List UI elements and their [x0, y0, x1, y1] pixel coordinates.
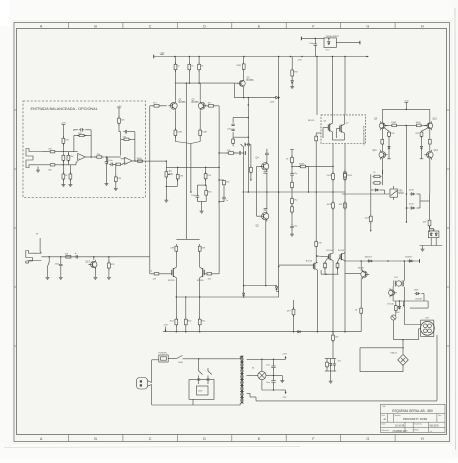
wire [175, 297, 177, 319]
wire [93, 257, 95, 260]
wire [433, 229, 435, 232]
wire filter bottom to bus [192, 399, 194, 405]
stub contact [403, 301, 405, 305]
wire center mirror drop [405, 125, 407, 143]
wire mains to transformer [186, 358, 239, 360]
wire x333 mid segment [332, 261, 334, 275]
resistor R35 [291, 180, 293, 182]
diode D12 [421, 145, 423, 146]
wire [392, 296, 394, 301]
svg-text:-70V: -70V [282, 397, 287, 399]
wire bus y297 [176, 296, 242, 298]
junction [315, 38, 317, 40]
ground Q13 [94, 276, 96, 278]
trim pot VR1 [390, 189, 397, 197]
svg-text:OUT: OUT [425, 317, 430, 319]
svg-text:H: H [421, 24, 424, 28]
wire [198, 57, 200, 65]
wire [205, 167, 207, 173]
svg-text:47K: 47K [111, 264, 115, 266]
svg-text:-70V: -70V [163, 325, 168, 327]
wire [382, 170, 384, 185]
svg-text:BD135: BD135 [308, 120, 315, 122]
wire [132, 160, 143, 162]
wire horizontal y194 [342, 193, 390, 195]
power +V mirror [405, 102, 409, 104]
resistor R48 [421, 131, 423, 132]
junction [291, 166, 293, 168]
transformer core [240, 356, 242, 404]
wire [314, 47, 316, 57]
wire [385, 124, 390, 126]
wire [420, 200, 430, 202]
svg-text:90 C: 90 C [326, 50, 331, 52]
wire [152, 160, 166, 162]
wire [121, 163, 123, 165]
capacitor C17 [273, 378, 275, 380]
junction [205, 167, 207, 169]
svg-text:220R: 220R [347, 175, 352, 177]
junction [176, 296, 178, 298]
svg-text:BC556: BC556 [192, 102, 200, 104]
svg-text:KBL04: KBL04 [391, 353, 398, 355]
title block [381, 404, 446, 432]
wire [106, 157, 108, 160]
wire [243, 88, 245, 98]
wire input chain [41, 256, 149, 258]
svg-text:Sheet: Sheet [414, 428, 419, 431]
x429 resistor chain [429, 194, 431, 218]
wire [67, 160, 69, 165]
wire [243, 57, 245, 64]
transformer secondary winding [241, 356, 244, 362]
wire input column end [149, 257, 151, 274]
resistor R54 [108, 261, 110, 263]
resistor R36 [291, 196, 293, 198]
junction x345 bus [344, 331, 346, 333]
svg-text:-: - [125, 158, 126, 161]
wire [332, 179, 334, 192]
junction x316 y192 [315, 191, 317, 193]
resistor R4 [62, 153, 64, 155]
junction x406 y194 [406, 193, 408, 195]
wire [212, 273, 220, 275]
svg-text:Filename: Filename [382, 430, 389, 432]
wire [381, 129, 383, 139]
wire [175, 251, 177, 267]
wire wiper corner [166, 185, 177, 187]
wire [199, 325, 201, 332]
wire [344, 115, 346, 124]
wire secondary taps [247, 358, 262, 360]
resistor R20 [175, 62, 177, 64]
resistor R39b [332, 201, 334, 203]
junction [243, 296, 245, 298]
wire [199, 297, 201, 319]
wire Q5 down [265, 220, 267, 286]
svg-text:LIGA: LIGA [178, 361, 183, 364]
svg-text:PROXIMITY 16/99: PROXIMITY 16/99 [403, 417, 427, 421]
svg-text:10m: 10m [266, 382, 270, 384]
svg-text:Date: Date [382, 423, 386, 426]
wire [134, 132, 136, 161]
svg-text:SPW56: SPW56 [197, 280, 205, 282]
transistor Q3 [239, 80, 245, 86]
wire [165, 161, 167, 171]
resistor R33 [226, 152, 228, 154]
capacitor C2 [106, 160, 108, 162]
wire [108, 257, 110, 263]
wire [150, 273, 154, 275]
wire [278, 97, 281, 99]
junction [93, 256, 95, 258]
resistor R52 [429, 218, 431, 220]
wire [62, 125, 64, 139]
junction [308, 191, 310, 193]
wire [120, 132, 122, 156]
switch CH1 [177, 356, 183, 359]
resistor R53 [64, 256, 66, 258]
resistor R70 small column [250, 145, 252, 168]
wire x407 upper [405, 143, 407, 222]
connector chain end [244, 151, 246, 155]
svg-text:H: H [421, 437, 424, 441]
resistor R45 [381, 138, 383, 139]
wire [336, 129, 338, 139]
diode D5b [435, 231, 437, 234]
wire tail join [175, 142, 191, 144]
relay RL1 coil [396, 281, 401, 286]
resistor R51a [373, 175, 375, 177]
wire [108, 268, 110, 276]
junction bus [174, 56, 176, 58]
resistor R27 [243, 62, 245, 64]
junction x333 y192 [332, 191, 334, 193]
junction [248, 97, 250, 99]
bottom grid reference strip [67, 435, 69, 442]
junction [218, 167, 220, 169]
resistor R32 [223, 179, 225, 181]
svg-text:TERMOSTATO: TERMOSTATO [326, 35, 340, 38]
junction [199, 331, 201, 333]
svg-text:Number: Number [395, 414, 401, 417]
svg-text:100R: 100R [391, 122, 396, 124]
junction [218, 179, 220, 181]
resistor R2 [49, 164, 50, 166]
diode D9 [408, 260, 410, 262]
wire [276, 290, 278, 293]
wire [291, 76, 293, 80]
wire y371 bus [360, 371, 403, 373]
wire Q18 down column [360, 278, 362, 308]
resistor R21 [188, 62, 190, 64]
svg-text:22R: 22R [391, 133, 395, 135]
bias servo box [321, 115, 366, 144]
wire source columns down [175, 278, 177, 297]
resistor R39 [332, 172, 334, 174]
wire [291, 212, 293, 225]
line filter box [189, 380, 214, 400]
junction [325, 273, 327, 275]
wire [332, 192, 334, 203]
wire Q20 down [393, 320, 395, 340]
wire [337, 267, 339, 274]
svg-text:BC556: BC556 [179, 102, 187, 104]
svg-text:330R: 330R [299, 163, 304, 165]
resistor R5 [67, 153, 69, 155]
svg-text:220R: 220R [236, 65, 241, 67]
wire [292, 166, 300, 168]
svg-text:Title: Title [382, 405, 385, 408]
wire [293, 300, 295, 309]
junction [185, 296, 187, 298]
wire [174, 83, 176, 101]
svg-text:220V: 220V [198, 390, 203, 392]
resistor R59a [175, 317, 177, 319]
wire [398, 124, 406, 126]
wire relay output to speaker [403, 287, 405, 325]
svg-text:1N4007: 1N4007 [365, 257, 373, 259]
wire [234, 152, 238, 154]
svg-text:10K: 10K [169, 174, 174, 176]
wire [201, 202, 203, 210]
resistor R14 [115, 175, 117, 177]
mains plug P1 [137, 378, 148, 390]
svg-text:BC556: BC556 [327, 250, 334, 252]
wire [199, 251, 201, 267]
aux supply network [325, 358, 336, 360]
wire [332, 208, 334, 240]
wire [196, 185, 198, 194]
resistor R65 [332, 333, 334, 335]
wire [266, 155, 268, 162]
resistor R57 [199, 244, 201, 246]
wire [74, 151, 78, 153]
resistor R72 [360, 306, 362, 308]
wire [419, 194, 421, 208]
wire top supply bus [154, 56, 368, 58]
transistor Q1 [170, 102, 177, 109]
svg-text:ACOPLAR TERMICO: ACOPLAR TERMICO [362, 126, 365, 146]
wire y297 right portion [242, 296, 279, 298]
junction bus [332, 56, 334, 58]
transformer primary winding [240, 356, 243, 362]
wire [423, 124, 427, 126]
wire speaker return [419, 328, 421, 330]
sense column down [370, 190, 372, 216]
wire long feedback line [185, 83, 187, 239]
wire [105, 156, 107, 158]
svg-text:ESQUEMA GERAL AB - 580: ESQUEMA GERAL AB - 580 [392, 409, 433, 413]
wire [143, 160, 152, 162]
capacitor C14 [198, 377, 200, 379]
resistor R73 [232, 137, 234, 140]
wire tail line [190, 152, 192, 192]
junction [248, 117, 250, 119]
transistor Q2 [198, 102, 205, 109]
wire T split to gates [176, 238, 199, 240]
wire [42, 151, 49, 153]
junction bus [344, 56, 346, 58]
wire [385, 128, 389, 131]
junction [134, 160, 136, 162]
svg-text:B: B [94, 24, 97, 28]
wire [422, 246, 424, 248]
svg-text:22K: 22K [207, 175, 211, 177]
page edge shadow bottom [4, 447, 300, 448]
capacitor C4 [123, 131, 125, 133]
resistor R3 [62, 136, 64, 138]
junction [332, 331, 334, 333]
wire [232, 132, 234, 139]
resistor R59b [185, 317, 187, 319]
wire [118, 108, 120, 118]
junction [166, 160, 168, 162]
wire [332, 340, 334, 358]
wire [344, 168, 346, 174]
wire [435, 238, 437, 246]
junction bus [189, 56, 191, 58]
svg-text:100R: 100R [327, 204, 332, 206]
svg-text:FUSIVEL: FUSIVEL [159, 353, 169, 355]
ground R7 [69, 183, 71, 185]
power arrow +V supply [274, 358, 286, 360]
junction [273, 375, 275, 377]
resistor R64 [293, 307, 295, 309]
wire [273, 369, 275, 379]
wire [123, 162, 125, 164]
wire [115, 163, 117, 177]
svg-text:+15V: +15V [61, 123, 67, 125]
junction [198, 82, 200, 84]
junction x317 output bus [317, 331, 319, 333]
svg-text:10R: 10R [339, 204, 343, 206]
wire [332, 166, 334, 173]
svg-text:+50V: +50V [297, 59, 303, 61]
wire [293, 315, 295, 332]
svg-text:+70V: +70V [404, 101, 410, 103]
resistor R59 [315, 240, 317, 242]
diode D1 [274, 97, 276, 99]
wire [159, 273, 172, 275]
connector +V [153, 55, 155, 59]
svg-text:22K: 22K [121, 119, 125, 121]
wire [429, 226, 431, 229]
transistor Q11 [379, 152, 386, 159]
svg-text:10R: 10R [423, 222, 427, 224]
wire plug leads [148, 381, 152, 383]
resistor R31 [205, 188, 207, 190]
svg-text:G: G [366, 24, 369, 28]
wire mid horizontal y167 [166, 166, 219, 168]
wire x360 vertical [359, 348, 361, 352]
wire [205, 179, 207, 185]
junction [218, 152, 220, 154]
wire [175, 57, 177, 65]
ground R6 [62, 183, 64, 185]
svg-text:C545898.SCH: C545898.SCH [393, 431, 408, 433]
wire y265 gate feed [279, 264, 313, 266]
wire [115, 182, 117, 188]
resistor R56 [175, 244, 177, 246]
wire [273, 384, 275, 390]
wire [429, 158, 431, 170]
wire [330, 371, 332, 380]
wire [333, 139, 345, 141]
svg-text:47R: 47R [170, 247, 174, 249]
resistor R28 [291, 68, 293, 70]
wire [324, 267, 326, 274]
wire column x266.9 segments [266, 173, 268, 208]
svg-text:BD137: BD137 [358, 267, 365, 269]
wire [107, 156, 121, 158]
ground zener [291, 85, 293, 87]
capacitor C8 [291, 172, 293, 174]
ground pot [165, 199, 167, 201]
wire long vertical x332 [332, 57, 334, 115]
resistor R6 [62, 172, 64, 174]
wire long column x243 [243, 147, 245, 293]
wire [74, 135, 79, 137]
wire [429, 109, 431, 122]
wire [392, 287, 394, 290]
resistor R51c [370, 214, 372, 216]
wire VAS column [278, 57, 280, 149]
wire [62, 165, 64, 174]
wire fet2 to x345 [344, 252, 347, 253]
svg-text:BC546: BC546 [306, 260, 313, 262]
resistor R9 [95, 156, 97, 158]
wire feedback column [218, 106, 220, 274]
wire [257, 165, 262, 167]
svg-text:100R: 100R [416, 122, 421, 124]
junction [205, 184, 207, 186]
bridge rectifier BR1 round [258, 371, 266, 379]
capacitor C23 [232, 128, 234, 131]
wire [85, 129, 91, 131]
resistor R68 [326, 361, 328, 362]
resistor R1 [49, 151, 50, 153]
capacitor C1 [79, 129, 81, 131]
junction [63, 151, 65, 153]
junction [248, 136, 250, 138]
svg-text:D: D [203, 437, 206, 441]
diode D16 [243, 291, 245, 294]
wire [188, 70, 190, 83]
junction [273, 389, 275, 391]
svg-text:VR1: VR1 [398, 191, 403, 193]
junction [402, 347, 404, 349]
speaker connector [421, 320, 434, 336]
resistor R60 [324, 262, 326, 263]
transistor Q5 [262, 213, 269, 220]
svg-text:WILSON: WILSON [430, 426, 439, 428]
wire [417, 207, 421, 209]
wire [199, 111, 201, 130]
junction [387, 260, 389, 262]
wire base bus Q3 [234, 82, 239, 84]
ground aux [330, 380, 332, 382]
selector switch contacts [198, 368, 200, 371]
wire [406, 124, 415, 126]
wire [62, 160, 64, 165]
transistor Q18 [361, 271, 367, 277]
junction [406, 109, 408, 111]
wire [371, 189, 374, 191]
junction [278, 266, 280, 268]
svg-text:22K: 22K [65, 140, 69, 142]
wire [232, 118, 234, 123]
